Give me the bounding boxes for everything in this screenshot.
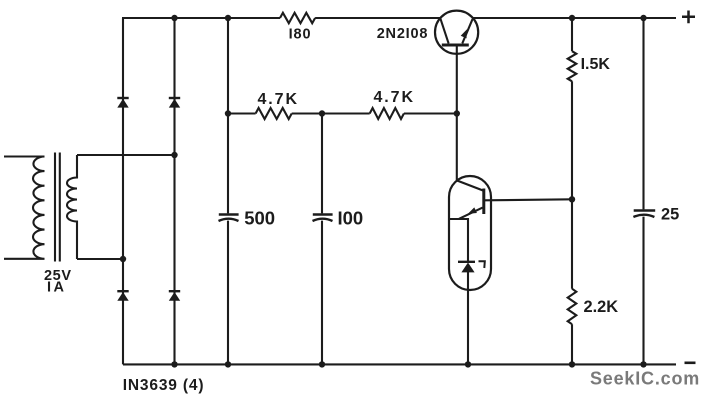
terminal - negative output: [685, 361, 696, 364]
wire 100 cap leg below: [321, 221, 323, 365]
diode D1 1N3639 upper-left: [117, 98, 128, 108]
wire left rectifier leg: [122, 18, 124, 364]
resistor 4.7K second: [370, 108, 404, 119]
node 4.7K row at 500 cap leg: [225, 110, 231, 116]
svg-text:4.7K: 4.7K: [258, 91, 299, 108]
wire output cap leg above: [642, 18, 644, 209]
node top rail at output cap: [640, 15, 646, 21]
wire Q2 emitter to zener: [449, 219, 468, 262]
capacitor 500: [219, 215, 239, 222]
transistor Q2: [457, 181, 484, 219]
diode D3 1N3639 lower-left: [117, 291, 128, 301]
terminal + positive output: [682, 11, 695, 24]
transformer T1 secondary winding: [67, 155, 77, 259]
resistor 4.7K first: [256, 108, 292, 119]
zener diode reference: [458, 261, 485, 272]
svg-text:4.7K: 4.7K: [374, 89, 415, 106]
svg-text:IA: IA: [47, 280, 67, 296]
transistor Q2 with zener package outline: [449, 176, 491, 290]
transformer T1 primary winding: [4, 157, 45, 259]
wire 500 cap leg below: [227, 221, 229, 365]
wire top rail left segment: [122, 17, 280, 19]
node secondary top junction: [171, 152, 177, 158]
capacitor 100: [313, 215, 333, 222]
wire top rail right segment: [473, 17, 676, 19]
wire top rail middle segment: [315, 17, 440, 19]
svg-text:I80: I80: [289, 27, 312, 43]
wire 4.7K row middle stub: [292, 112, 370, 114]
wire 4.7K row left stub: [228, 112, 256, 114]
wire bottom rail: [123, 363, 676, 365]
wire Q1 base to Q2 collector: [456, 47, 458, 182]
capacitor 25: [633, 211, 655, 218]
wire divider middle: [571, 81, 573, 288]
node secondary bottom junction: [120, 256, 126, 262]
node bottom rail at D4 leg: [171, 361, 177, 367]
wire divider bottom stub: [571, 324, 573, 364]
wire output cap leg below: [642, 217, 644, 365]
svg-text:2N2I08: 2N2I08: [377, 26, 429, 42]
transistor Q1 2N2108: [435, 11, 478, 54]
wire 4.7K row right stub: [404, 112, 457, 114]
wire Q2 base lead to divider: [485, 199, 572, 200]
node bottom rail at output cap: [640, 361, 646, 367]
node top rail at 500 cap leg: [225, 15, 231, 21]
node bottom rail at 500 cap leg: [225, 361, 231, 367]
svg-text:2.2K: 2.2K: [584, 298, 619, 316]
diode D2 1N3639 upper-right: [169, 98, 180, 108]
wire 100 cap leg above: [321, 114, 323, 214]
svg-text:IN3639 (4): IN3639 (4): [123, 377, 205, 394]
svg-text:I00: I00: [338, 208, 364, 229]
svg-text:I.5K: I.5K: [581, 56, 611, 73]
node top rail at divider: [569, 15, 575, 21]
wire secondary bottom lead: [77, 258, 123, 260]
wire filter node upper (500 cap leg, above): [227, 18, 229, 213]
diode D4 1N3639 lower-right: [169, 291, 180, 301]
resistor 1.5K: [568, 51, 577, 81]
resistor 2.2K: [568, 289, 577, 325]
svg-text:25: 25: [661, 206, 679, 224]
node bottom rail at 100 cap leg: [319, 361, 325, 367]
wire divider top stub: [571, 18, 573, 51]
node top rail at D2 leg: [171, 15, 177, 21]
svg-text:500: 500: [244, 208, 275, 229]
transformer T1 core: [55, 153, 60, 262]
wire zener anode to bottom rail: [467, 272, 469, 364]
node bottom rail at divider: [569, 361, 575, 367]
node 4.7K row at 100 cap leg: [319, 110, 325, 116]
node divider junction: [569, 196, 575, 202]
wire secondary top lead: [77, 154, 175, 156]
node base junction with 4.7K: [454, 110, 460, 116]
wire second rectifier leg: [173, 18, 175, 364]
node bottom rail at zener leg: [465, 361, 471, 367]
resistor 180: [280, 13, 315, 23]
svg-text:SeekIC.com: SeekIC.com: [590, 369, 700, 389]
